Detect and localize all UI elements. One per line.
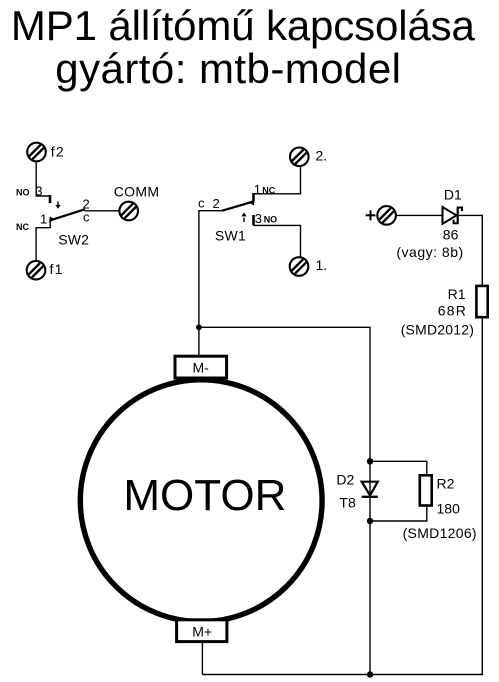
terminal 2. (SW1) bbox=[290, 148, 309, 167]
SW1 NC contact stub bbox=[252, 193, 255, 201]
svg-text:2.: 2. bbox=[316, 148, 328, 164]
svg-text:1: 1 bbox=[40, 212, 47, 227]
svg-text:MP1 állítómű kapcsolása: MP1 állítómű kapcsolása bbox=[11, 2, 476, 49]
svg-text:MOTOR: MOTOR bbox=[123, 471, 286, 520]
svg-text:(SMD2012): (SMD2012) bbox=[401, 322, 474, 338]
svg-text:2: 2 bbox=[213, 196, 220, 211]
svg-text:180: 180 bbox=[437, 500, 461, 516]
svg-text:M-: M- bbox=[193, 360, 210, 376]
wire R1 to bottom right corner bbox=[202, 317, 482, 674]
svg-text:NC: NC bbox=[262, 185, 275, 195]
SW1 NO contact stub bbox=[252, 215, 255, 225]
svg-text:T8: T8 bbox=[339, 494, 356, 510]
SW2 switch arm with contact tick bbox=[49, 209, 85, 222]
svg-text:1.: 1. bbox=[316, 257, 328, 273]
diode D1 (schottky) bbox=[443, 207, 463, 225]
wire M+ to bottom wire bbox=[201, 642, 203, 675]
svg-text:68R: 68R bbox=[438, 302, 467, 318]
terminal box M+ bbox=[177, 620, 227, 642]
SW2 NO contact stub bbox=[49, 195, 52, 203]
SW1 switch arm with contact tick bbox=[222, 200, 254, 211]
terminal COMM bbox=[119, 202, 138, 221]
wire SW1 pole bbox=[199, 211, 223, 328]
resistor R1 bbox=[476, 286, 487, 317]
wire D2 top junction down through diode to bottom junction bbox=[369, 461, 371, 521]
wire SW1 NO to terminal 1. bbox=[254, 225, 301, 256]
svg-text:NO: NO bbox=[264, 215, 278, 225]
wire SW2 arm to COMM bbox=[85, 210, 119, 212]
SW2 actuation arrow (down) bbox=[55, 201, 60, 208]
wire R2 branch top bbox=[370, 461, 427, 475]
svg-text:M+: M+ bbox=[192, 624, 212, 640]
wire terminal 2. to SW1 NC bbox=[254, 166, 301, 194]
label + bbox=[366, 214, 376, 216]
svg-text:(SMD1206): (SMD1206) bbox=[403, 525, 477, 541]
svg-text:c: c bbox=[198, 195, 205, 210]
svg-text:NC: NC bbox=[16, 222, 29, 232]
wire + to D1 bbox=[396, 214, 443, 216]
svg-text:COMM: COMM bbox=[114, 183, 160, 199]
SW1 actuation arrow (up) bbox=[241, 213, 246, 223]
svg-text:SW1: SW1 bbox=[215, 227, 246, 243]
terminal + bbox=[377, 206, 396, 225]
svg-text:gyártó: mtb-model: gyártó: mtb-model bbox=[55, 45, 401, 92]
svg-text:f2: f2 bbox=[51, 144, 65, 160]
svg-text:R2: R2 bbox=[437, 476, 455, 492]
svg-text:R1: R1 bbox=[448, 286, 466, 302]
junction dot bottom wire bbox=[367, 671, 373, 677]
svg-text:c: c bbox=[83, 210, 90, 225]
wire f2 to SW2 NO bbox=[36, 162, 50, 197]
junction dot D2 top bbox=[367, 458, 373, 464]
svg-text:D2: D2 bbox=[336, 472, 354, 488]
terminal box M- bbox=[175, 356, 227, 378]
wire D1 to R1 bbox=[459, 215, 483, 286]
svg-text:3: 3 bbox=[35, 184, 42, 199]
terminal f1 bbox=[27, 261, 46, 280]
svg-text:86: 86 bbox=[443, 227, 459, 243]
wire node A to M- bbox=[198, 327, 200, 356]
svg-text:NO: NO bbox=[16, 188, 30, 198]
svg-text:SW2: SW2 bbox=[58, 231, 89, 247]
terminal 1. (SW1) bbox=[290, 257, 309, 276]
wire R2 branch bottom bbox=[370, 506, 427, 522]
terminal f2 bbox=[27, 143, 46, 162]
junction node A (SW1 pole / M-) bbox=[196, 324, 202, 330]
svg-text:1: 1 bbox=[254, 182, 261, 197]
resistor R2 bbox=[420, 475, 432, 505]
motor body bbox=[80, 380, 322, 622]
svg-text:3: 3 bbox=[255, 211, 262, 226]
svg-text:(vagy: 8b): (vagy: 8b) bbox=[396, 244, 463, 260]
svg-text:D1: D1 bbox=[444, 187, 462, 203]
wire D2 bottom junction to bottom wire bbox=[369, 521, 371, 675]
diode D2 bbox=[362, 482, 378, 497]
svg-text:f1: f1 bbox=[50, 261, 64, 277]
junction dot D2 bottom bbox=[367, 518, 373, 524]
wire node A to D2 branch bbox=[199, 327, 370, 461]
wire SW2 pole to f1 bbox=[36, 220, 50, 260]
